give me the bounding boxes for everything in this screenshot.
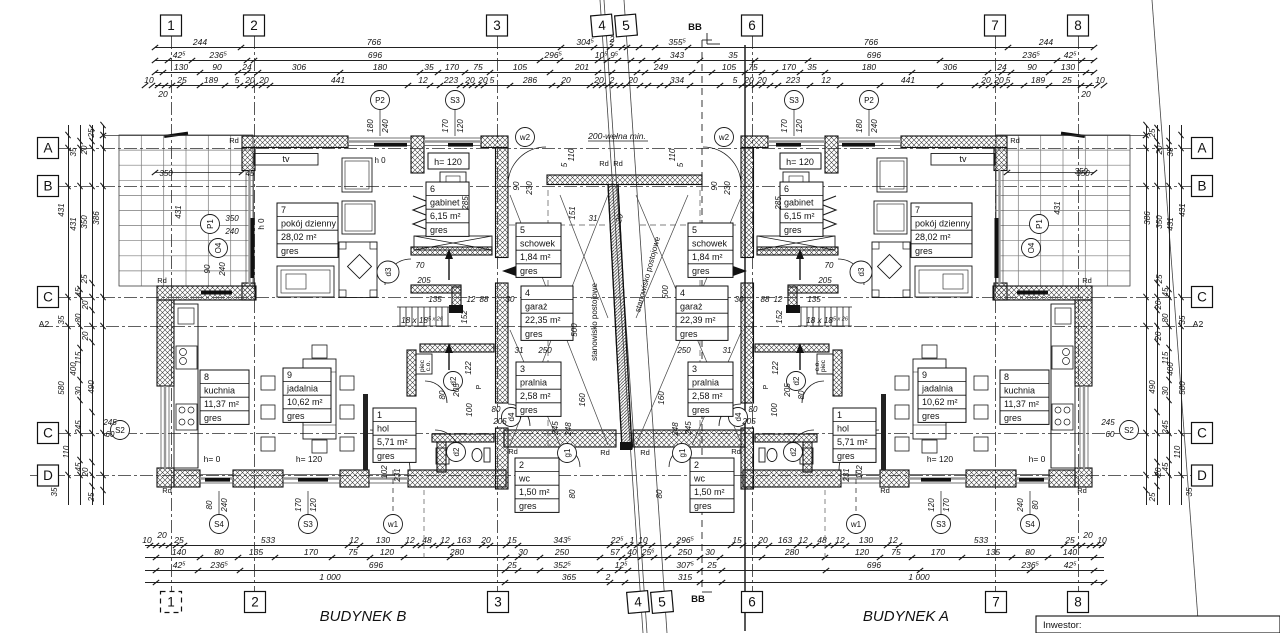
svg-text:245: 245 [102,418,117,427]
svg-text:10: 10 [144,75,154,85]
svg-text:h= 120: h= 120 [296,454,323,464]
svg-text:431: 431 [1053,201,1062,214]
svg-text:24: 24 [996,62,1007,72]
svg-text:350: 350 [80,215,89,229]
schowek door arrow [502,266,516,276]
svg-text:6: 6 [784,184,789,194]
svg-text:25: 25 [80,274,89,284]
svg-text:24: 24 [241,62,252,72]
svg-text:gres: gres [692,266,710,276]
kitchen left wall [157,300,174,386]
terrace top edge extension [103,135,243,137]
svg-text:gres: gres [1004,413,1022,423]
axis letter boxes left [38,138,59,159]
svg-text:S3: S3 [303,520,313,529]
svg-text:400: 400 [1166,362,1175,376]
svg-text:70: 70 [825,261,834,270]
svg-text:100: 100 [465,403,474,417]
svg-text:280: 280 [784,547,799,557]
svg-text:35: 35 [728,50,738,60]
svg-text:580: 580 [57,381,66,395]
svg-text:170: 170 [304,547,318,557]
svg-text:6: 6 [748,595,756,610]
svg-text:31: 31 [515,346,524,355]
svg-text:160: 160 [657,391,666,405]
svg-text:gabinet: gabinet [430,198,460,208]
svg-text:A: A [43,141,52,156]
svg-text:75: 75 [748,62,758,72]
w1 dashed window lines [392,470,394,514]
svg-text:189: 189 [1031,75,1045,85]
svg-text:gres: gres [519,501,537,511]
svg-text:gres: gres [204,413,222,423]
svg-text:170: 170 [441,119,450,133]
svg-text:120: 120 [855,547,869,557]
svg-text:25: 25 [1061,75,1072,85]
svg-text:Rd: Rd [1077,486,1087,495]
room box gabinet B [426,182,469,236]
svg-text:180: 180 [366,119,375,133]
axis grid lines [58,148,1192,150]
svg-text:306: 306 [943,62,957,72]
svg-text:151: 151 [568,206,577,219]
svg-text:S3: S3 [936,520,946,529]
svg-text:5: 5 [1006,75,1011,85]
svg-text:250: 250 [677,547,692,557]
door arcs [370,147,580,470]
svg-text:2: 2 [609,75,615,85]
axis marker boxes top [161,15,182,36]
svg-text:8: 8 [1074,595,1082,610]
svg-text:g1: g1 [563,448,572,457]
svg-text:1,50 m²: 1,50 m² [519,487,550,497]
coffee table with diamond [339,242,377,298]
svg-text:5: 5 [560,162,569,167]
svg-text:3: 3 [494,595,502,610]
svg-text:102: 102 [380,465,389,479]
svg-text:schowek: schowek [692,239,728,249]
room box jadalnia A [918,368,966,422]
svg-text:280: 280 [449,547,464,557]
svg-text:180: 180 [855,119,864,133]
room box schowek B [516,223,561,277]
svg-text:D: D [43,468,53,483]
svg-text:Rd: Rd [162,486,172,495]
svg-text:20: 20 [1082,530,1093,540]
svg-text:Rd: Rd [1082,276,1092,285]
svg-text:57: 57 [610,547,620,557]
svg-text:6: 6 [430,184,435,194]
svg-text:10,62 m²: 10,62 m² [922,397,958,407]
svg-text:B: B [43,179,52,194]
svg-text:130: 130 [859,535,873,545]
svg-text:gabinet: gabinet [784,198,814,208]
svg-text:441: 441 [331,75,345,85]
svg-text:170: 170 [942,498,951,512]
chairs [261,376,275,390]
svg-text:533: 533 [261,535,275,545]
svg-text:jadalnia: jadalnia [286,384,318,394]
svg-text:BB: BB [688,22,702,33]
svg-text:25: 25 [1148,492,1157,502]
svg-text:200-wełna min.: 200-wełna min. [587,131,646,141]
svg-text:35: 35 [1178,315,1187,324]
svg-text:C: C [43,290,53,305]
kitchen-top wall band on axis C [157,286,256,300]
desk in gabinet [440,172,466,192]
dining table [303,359,336,439]
garage bottom wall [504,430,616,447]
svg-text:105: 105 [513,62,527,72]
svg-text:80: 80 [568,489,577,498]
svg-text:d3: d3 [384,267,393,276]
svg-text:O4: O4 [214,242,223,253]
svg-text:231: 231 [842,468,851,482]
svg-text:766: 766 [864,37,878,47]
svg-text:286: 286 [522,75,537,85]
svg-text:170: 170 [782,62,796,72]
svg-text:d4: d4 [507,412,516,421]
room box wc B [515,458,559,512]
svg-text:170: 170 [780,119,789,133]
armchair 1 [342,158,372,192]
svg-text:h 0: h 0 [374,156,386,165]
svg-text:5: 5 [658,594,667,610]
svg-text:12: 12 [418,75,428,85]
svg-text:2: 2 [694,460,699,470]
svg-text:30: 30 [506,295,515,304]
svg-text:jadalnia: jadalnia [921,384,953,394]
svg-text:20: 20 [81,300,90,310]
svg-text:1 000: 1 000 [319,572,341,582]
stair enclosure wall [411,285,461,293]
svg-text:35: 35 [50,487,59,496]
terrace grid building A [996,135,1130,286]
svg-text:O4: O4 [1027,242,1036,253]
svg-text:431: 431 [1178,203,1187,216]
svg-text:240: 240 [1016,498,1025,513]
svg-text:250: 250 [537,346,552,355]
svg-text:90: 90 [1027,62,1037,72]
svg-text:12: 12 [467,295,476,304]
svg-text:11,37 m²: 11,37 m² [1004,399,1039,409]
svg-text:5: 5 [622,18,631,34]
svg-text:4: 4 [525,288,530,298]
svg-text:BUDYNEK A: BUDYNEK A [863,608,949,625]
svg-text:gres: gres [692,405,710,415]
svg-text:22,35 m²: 22,35 m² [525,315,561,325]
svg-text:wc: wc [518,474,530,484]
svg-text:80: 80 [74,313,83,322]
svg-text:7: 7 [992,595,1000,610]
svg-text:205: 205 [741,417,756,426]
svg-text:Rd: Rd [157,276,167,285]
svg-text:piec: piec [820,359,827,372]
room box kuchnia B [200,370,249,424]
outer wall: top, living room [242,136,348,148]
svg-text:245: 245 [1100,418,1115,427]
room box gabinet A [780,182,823,236]
svg-text:45: 45 [246,169,255,178]
washbasin [436,448,449,464]
svg-text:1: 1 [837,410,842,420]
svg-text:441: 441 [901,75,915,85]
svg-text:gres: gres [430,225,448,235]
section line B-B [701,40,703,592]
svg-text:120: 120 [380,547,394,557]
svg-text:110: 110 [668,148,677,161]
boiler piec [416,354,432,374]
svg-text:kuchnia: kuchnia [1004,386,1035,396]
svg-text:20: 20 [980,75,991,85]
svg-text:3: 3 [692,364,697,374]
svg-text:75: 75 [473,62,483,72]
svg-text:tv: tv [282,154,290,164]
room box schowek A [688,223,733,277]
room box pralnia B [516,362,561,416]
svg-text:5: 5 [692,225,697,235]
tv cabinet [254,154,318,166]
svg-text:3: 3 [493,18,501,33]
svg-text:pokój dzienny: pokój dzienny [915,219,971,229]
svg-text:D: D [1197,468,1207,483]
svg-text:gres: gres [377,451,395,461]
svg-text:10: 10 [142,535,152,545]
svg-text:hol: hol [377,424,389,434]
svg-text:35: 35 [807,62,817,72]
svg-text:120: 120 [456,119,465,133]
svg-text:28,02 m²: 28,02 m² [915,232,951,242]
svg-text:230: 230 [525,181,534,196]
reference circles [371,91,390,110]
svg-text:w1: w1 [387,520,399,529]
svg-text:180: 180 [862,62,876,72]
svg-text:d2: d2 [452,447,461,456]
room box jadalnia B [283,368,331,422]
svg-text:5: 5 [676,162,685,167]
svg-text:31: 31 [589,214,598,223]
svg-text:P1: P1 [1035,219,1044,229]
svg-text:244: 244 [192,37,207,47]
svg-text:285: 285 [461,196,470,211]
svg-text:80: 80 [749,405,758,414]
svg-text:60: 60 [106,430,115,439]
svg-text:35: 35 [424,62,434,72]
svg-text:35: 35 [1166,147,1175,156]
armchair 2 [342,201,375,234]
svg-text:schowek: schowek [520,239,556,249]
svg-text:Rd: Rd [880,486,890,495]
svg-text:5: 5 [235,75,240,85]
svg-text:135: 135 [428,295,442,304]
svg-text:3: 3 [520,364,525,374]
svg-text:2,58 m²: 2,58 m² [520,391,551,401]
svg-text:10,62 m²: 10,62 m² [287,397,323,407]
svg-text:20: 20 [1154,300,1163,310]
left outer wall top [242,148,255,171]
svg-text:20: 20 [156,530,167,540]
svg-text:gres: gres [287,411,305,421]
svg-text:S3: S3 [450,96,460,105]
svg-text:306: 306 [292,62,306,72]
svg-text:240: 240 [220,498,229,513]
svg-text:163: 163 [457,535,471,545]
terrace top dim line [155,172,242,174]
axis 4/5 slanted boundary lines [600,0,643,633]
svg-text:9: 9 [287,370,292,380]
svg-text:h= 0: h= 0 [204,454,221,464]
svg-text:35: 35 [69,147,78,156]
svg-text:30: 30 [1161,386,1170,395]
svg-text:8: 8 [204,372,209,382]
svg-text:25: 25 [87,492,96,502]
svg-text:163: 163 [778,535,792,545]
svg-text:350: 350 [159,169,173,178]
svg-text:gres: gres [915,246,933,256]
svg-text:248: 248 [671,422,680,437]
svg-text:160: 160 [578,393,587,407]
svg-text:244: 244 [1038,37,1053,47]
svg-text:120: 120 [795,119,804,133]
svg-text:90: 90 [512,181,521,190]
svg-text:223: 223 [443,75,458,85]
svg-text:6: 6 [748,18,756,33]
svg-text:30: 30 [705,547,715,557]
room box wc A [690,458,734,512]
svg-text:45: 45 [74,462,83,471]
wc walls [432,434,494,442]
svg-text:140: 140 [1063,547,1077,557]
svg-text:240: 240 [224,227,239,236]
svg-text:Rd: Rd [229,136,239,145]
svg-text:170: 170 [294,498,303,512]
svg-text:386: 386 [1143,211,1152,225]
svg-text:88: 88 [761,295,770,304]
svg-text:5,71 m²: 5,71 m² [837,437,868,447]
svg-text:696: 696 [369,560,383,570]
svg-text:88: 88 [480,295,489,304]
svg-text:w2: w2 [718,133,730,142]
svg-text:240: 240 [381,119,390,134]
svg-text:h= 0: h= 0 [1029,454,1046,464]
svg-text:205: 205 [492,417,507,426]
svg-text:22,39 m²: 22,39 m² [680,315,716,325]
svg-text:223: 223 [785,75,800,85]
svg-text:240: 240 [218,262,227,277]
svg-text:431: 431 [69,217,78,230]
svg-text:d2: d2 [792,376,801,385]
svg-text:g1: g1 [678,448,687,457]
svg-text:90: 90 [710,181,719,190]
svg-text:245: 245 [74,420,83,435]
svg-text:1 000: 1 000 [908,572,930,582]
svg-text:230: 230 [723,181,732,196]
toilet [472,449,482,462]
svg-text:1: 1 [167,18,175,33]
svg-text:d3: d3 [857,267,866,276]
svg-text:gres: gres [680,329,698,339]
right vertical dimension chain [1181,125,1183,505]
svg-text:8: 8 [1074,18,1082,33]
svg-text:Rd: Rd [599,159,609,168]
svg-text:696: 696 [867,560,881,570]
svg-text:P1: P1 [206,219,215,229]
svg-text:122: 122 [771,361,780,375]
svg-text:75: 75 [348,547,358,557]
svg-text:533: 533 [974,535,988,545]
left vertical dimension chain [68,125,70,505]
svg-text:w1: w1 [850,520,862,529]
svg-text:80: 80 [655,489,664,498]
svg-text:386: 386 [92,211,101,225]
room box pralnia A [688,362,733,416]
svg-text:Rd: Rd [600,448,610,457]
svg-text:tv: tv [959,154,967,164]
svg-text:garaż: garaż [680,302,703,312]
svg-text:BUDYNEK B: BUDYNEK B [320,608,407,625]
svg-text:gres: gres [525,329,543,339]
svg-text:d2: d2 [789,447,798,456]
svg-text:S2: S2 [1124,426,1134,435]
svg-text:1: 1 [377,410,382,420]
svg-text:250: 250 [676,346,691,355]
right outer wall [496,148,509,258]
svg-text:35: 35 [57,315,66,324]
top wall right segment [481,136,508,148]
svg-text:20: 20 [81,331,90,341]
svg-text:696: 696 [368,50,382,60]
svg-text:9: 9 [922,370,927,380]
svg-text:2: 2 [250,18,258,33]
svg-text:S2: S2 [115,426,125,435]
svg-text:90: 90 [203,264,212,273]
svg-text:365: 365 [562,572,576,582]
svg-text:20: 20 [464,75,475,85]
svg-text:12: 12 [821,75,831,85]
svg-text:135: 135 [249,547,263,557]
window glazing lines [165,142,481,479]
inwestor box [1036,616,1280,633]
svg-text:P2: P2 [864,96,874,105]
svg-text:120: 120 [309,498,318,512]
svg-text:pralnia: pralnia [692,378,719,388]
svg-text:Inwestor:: Inwestor: [1043,620,1082,631]
room box pokój dzienny A [911,203,972,257]
svg-text:stanowisko postojowe: stanowisko postojowe [590,283,599,361]
svg-text:245: 245 [551,421,560,436]
parking stall A diagonals [636,195,742,445]
svg-text:80: 80 [205,500,214,509]
svg-text:BB: BB [691,594,705,605]
svg-text:350: 350 [1076,169,1090,178]
svg-text:110: 110 [1173,445,1182,458]
svg-text:140: 140 [172,547,186,557]
svg-text:122: 122 [464,361,473,375]
svg-text:gres: gres [520,266,538,276]
svg-text:130: 130 [376,535,390,545]
double sink [176,346,197,369]
svg-text:152: 152 [460,310,469,324]
svg-text:A2: A2 [39,319,50,329]
svg-text:h= 120: h= 120 [786,157,814,167]
svg-text:7: 7 [915,205,920,215]
svg-text:205: 205 [452,383,461,398]
svg-text:135: 135 [807,295,821,304]
svg-text:490: 490 [87,380,96,394]
svg-text:P: P [763,384,770,389]
svg-text:S4: S4 [1025,520,1035,529]
svg-text:1: 1 [167,595,175,610]
